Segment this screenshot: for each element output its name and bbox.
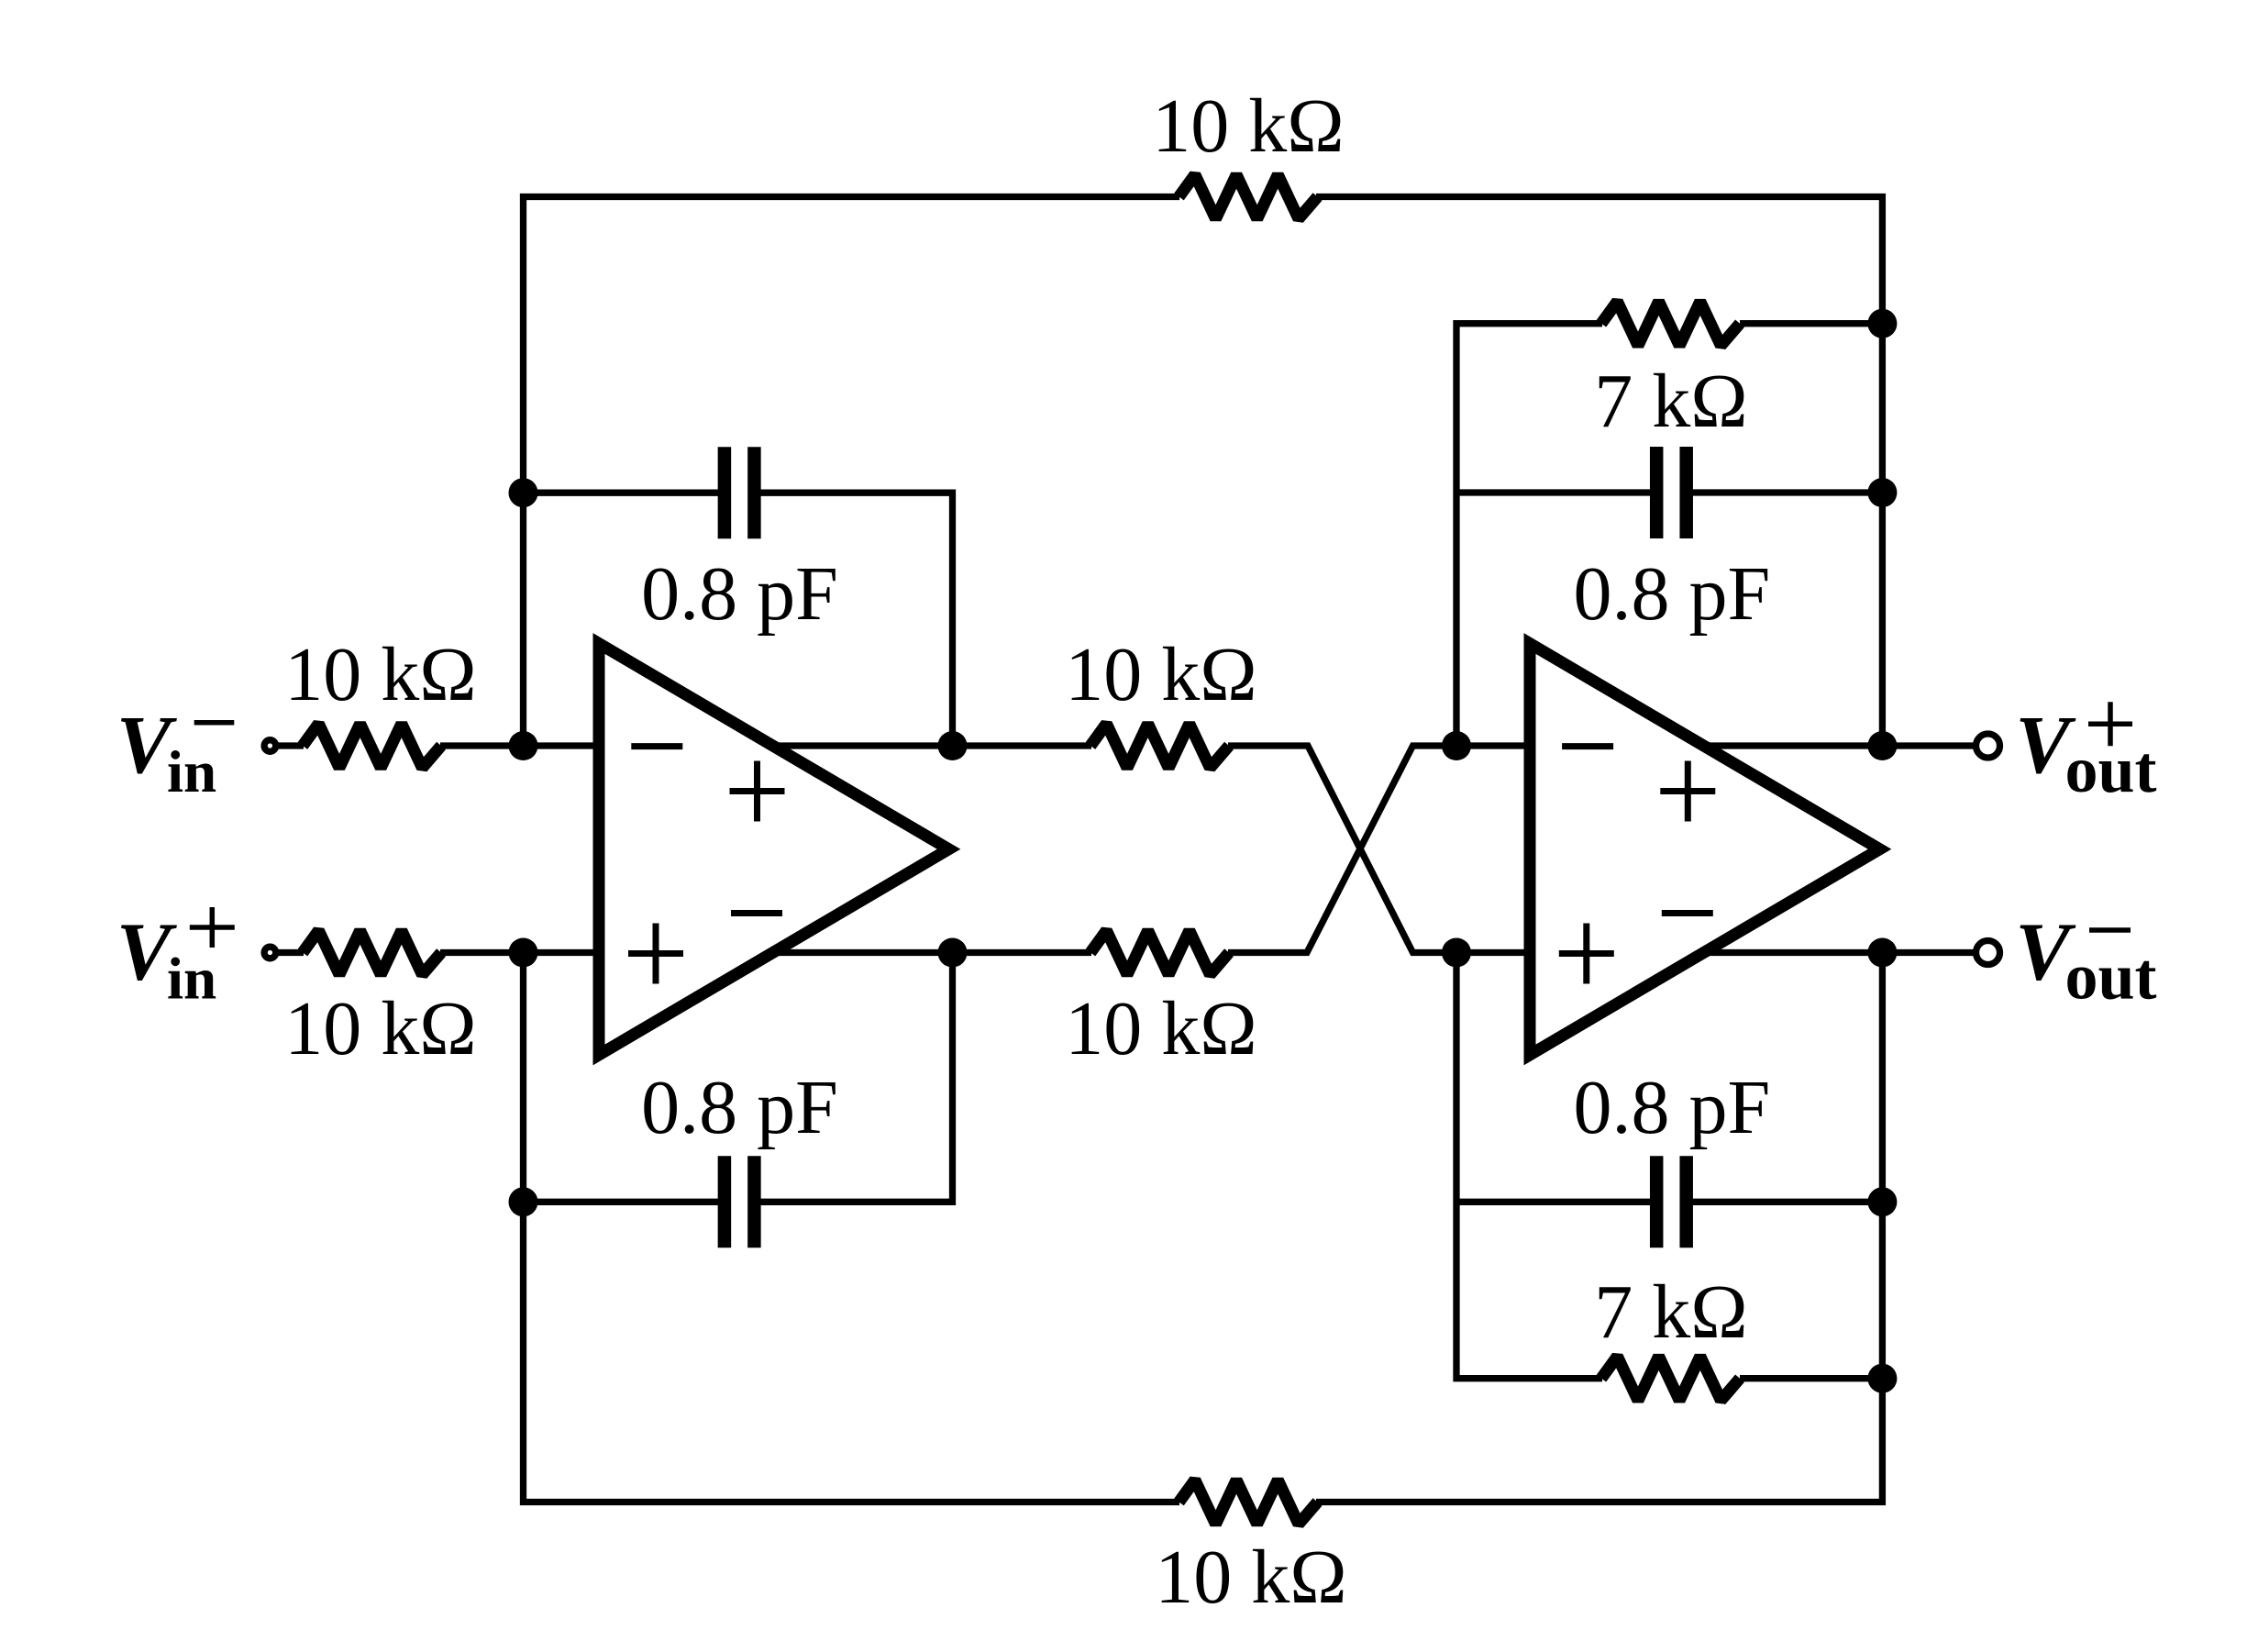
svg-text:out: out: [2065, 733, 2157, 806]
svg-text:0.8 pF: 0.8 pF: [641, 1065, 838, 1150]
svg-text:out: out: [2065, 940, 2157, 1014]
svg-text:10 kΩ: 10 kΩ: [1152, 83, 1344, 169]
svg-text:0.8 pF: 0.8 pF: [1574, 551, 1771, 637]
svg-text:10 kΩ: 10 kΩ: [1065, 632, 1256, 717]
svg-text:10 kΩ: 10 kΩ: [1065, 986, 1256, 1071]
svg-text:in: in: [167, 947, 216, 1013]
svg-text:10 kΩ: 10 kΩ: [284, 986, 476, 1071]
svg-text:0.8 pF: 0.8 pF: [641, 551, 838, 637]
svg-text:10 kΩ: 10 kΩ: [1155, 1535, 1346, 1620]
svg-text:10 kΩ: 10 kΩ: [284, 632, 476, 717]
svg-text:7 kΩ: 7 kΩ: [1594, 359, 1747, 444]
svg-text:7 kΩ: 7 kΩ: [1594, 1269, 1747, 1355]
svg-text:in: in: [167, 739, 216, 805]
svg-text:0.8 pF: 0.8 pF: [1574, 1065, 1771, 1150]
